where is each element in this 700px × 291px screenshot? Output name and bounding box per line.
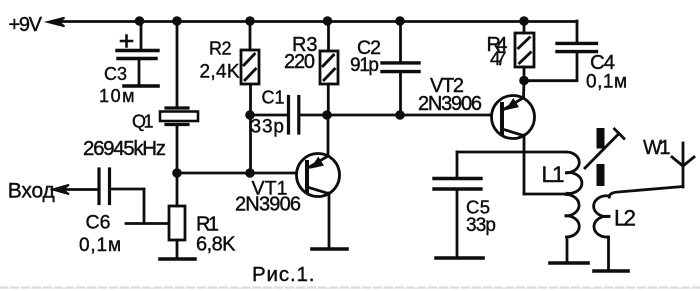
transistor VT2 (PNP 2N3906) <box>492 81 535 194</box>
node R3 rail junction <box>323 16 333 26</box>
resistor R3 <box>320 21 338 115</box>
wire L1 tap to VT2 collector <box>524 193 571 196</box>
trimmer capacitor plates <box>585 128 624 186</box>
ground under VT1 <box>312 247 347 251</box>
node C2/base VT2 junction <box>395 110 405 120</box>
wire C6 to R1 <box>126 189 169 224</box>
svg-text:L2: L2 <box>614 206 636 231</box>
wire VT1 base <box>177 172 296 175</box>
capacitor C5 <box>434 152 481 257</box>
svg-text:2N3906: 2N3906 <box>235 194 301 216</box>
node R2/base wire junction <box>245 168 255 178</box>
svg-text:R1: R1 <box>196 214 219 236</box>
wire tank top (C5 to L1) <box>457 151 566 154</box>
wire +9V top rail <box>58 20 577 23</box>
svg-text:C3: C3 <box>104 64 127 84</box>
svg-text:C1: C1 <box>262 88 285 108</box>
svg-text:2,4K: 2,4K <box>200 62 240 83</box>
svg-text:33p: 33p <box>251 117 285 138</box>
capacitor C3 (polarized electrolytic) <box>117 21 158 84</box>
svg-text:47: 47 <box>490 49 507 70</box>
svg-text:33p: 33p <box>466 215 496 236</box>
svg-text:W1: W1 <box>643 137 671 159</box>
svg-text:6,8K: 6,8K <box>196 234 236 256</box>
antenna W1 <box>672 143 694 187</box>
svg-text:R2: R2 <box>209 39 232 59</box>
input arrow Вход <box>53 185 70 194</box>
svg-text:220: 220 <box>284 51 315 73</box>
node C2 rail junction <box>395 16 405 26</box>
svg-text:91p: 91p <box>350 55 379 76</box>
svg-text:L1: L1 <box>542 162 565 187</box>
resistor R4 <box>515 21 534 80</box>
svg-text:C6: C6 <box>86 212 111 234</box>
node Q1/R1 base junction <box>172 168 182 178</box>
power arrow +9V <box>48 18 65 27</box>
svg-text:Q1: Q1 <box>132 112 154 132</box>
inductor L1 <box>566 152 582 262</box>
wire emitter net y=115 <box>327 114 491 117</box>
ground under C3 <box>124 84 158 88</box>
inductor L2 <box>594 187 683 271</box>
wire input to C6 <box>63 188 98 191</box>
svg-text:+9V: +9V <box>9 14 43 36</box>
ground under L2 <box>594 269 628 273</box>
node R2/C1 junction <box>245 110 255 120</box>
node R4 rail junction <box>519 16 529 26</box>
svg-text:Рис.1.: Рис.1. <box>252 263 315 286</box>
resistor R2 <box>241 21 259 173</box>
svg-text:0,1м: 0,1м <box>586 72 627 93</box>
svg-text:26945kHz: 26945kHz <box>83 137 166 160</box>
node R2 rail junction <box>245 16 255 26</box>
svg-text:Вход: Вход <box>8 180 55 203</box>
transistor VT1 (PNP 2N3906) <box>297 115 340 248</box>
svg-text:0,1м: 0,1м <box>79 235 121 256</box>
node R4/VT2 emitter junction <box>519 76 529 86</box>
capacitor C4 with bypass loop <box>524 21 597 81</box>
node C3 rail junction <box>135 16 145 26</box>
node Q1 rail junction <box>172 16 182 26</box>
ground under L1 <box>550 261 588 265</box>
ground under C5 <box>436 256 483 260</box>
ground under R1 <box>160 257 195 261</box>
crystal Q1 <box>160 21 198 173</box>
capacitor C1 <box>250 97 327 134</box>
capacitor C6 <box>99 169 144 204</box>
node R3/VT1 emitter junction <box>322 110 332 120</box>
capacitor C2 <box>382 21 419 114</box>
bottom dashed page edge <box>0 286 700 288</box>
svg-text:10м: 10м <box>99 86 135 106</box>
resistor R1 <box>169 173 185 258</box>
svg-text:2N3906: 2N3906 <box>418 93 482 115</box>
